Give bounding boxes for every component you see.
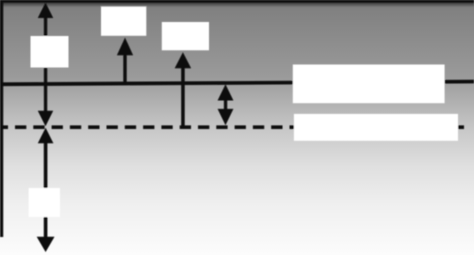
label box C (upper middle-right): [162, 22, 209, 50]
dashed horizontal level line: [0, 125, 464, 129]
left border line: [0, 0, 3, 237]
solid horizontal level line: [0, 80, 474, 86]
up arrow 2 (solid line to box B): [117, 38, 133, 85]
double arrow 1 (top to dashed line): [38, 3, 53, 127]
double arrow 4 (between solid and dashed lines): [218, 84, 234, 125]
label box D (right, over solid line): [293, 65, 445, 104]
up arrow 3 (dashed line to box C): [175, 52, 191, 128]
label box A (on arrow 1): [31, 36, 69, 68]
label box B (top middle): [101, 7, 146, 36]
top border line: [0, 0, 474, 3]
label box F (on arrow 5): [29, 188, 60, 217]
double arrow 5 (dashed line to bottom): [37, 128, 55, 252]
label box E (right, over dashed line): [294, 114, 458, 141]
top border fade: [0, 2, 474, 7]
